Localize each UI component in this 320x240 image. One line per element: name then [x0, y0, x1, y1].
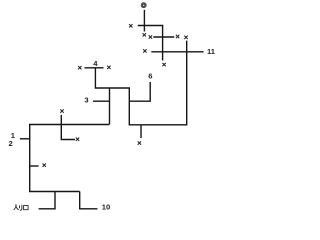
wire small vertical with right tick: [61, 115, 75, 140]
x mark 7 below upper-left dead end: [162, 63, 165, 66]
label entrance text: [14, 205, 28, 211]
wire node 4 horizontal: [85, 67, 104, 69]
svg-text:10: 10: [102, 202, 110, 211]
x mark 12 right of lower-left tick: [43, 164, 46, 167]
goal marker double circle: [141, 2, 147, 8]
wire tick lower left: [30, 165, 39, 167]
wire node 3 horizontal: [93, 100, 110, 102]
svg-text:4: 4: [93, 59, 98, 68]
svg-text:2: 2: [9, 139, 13, 148]
x mark 8 left of node 4 horizontal: [78, 66, 81, 69]
svg-text:3: 3: [84, 95, 88, 104]
wire node 6 branch: [129, 82, 150, 101]
wire from goal marker down through junction: [143, 10, 145, 32]
x mark 11 right of small tick: [76, 138, 79, 141]
wire entrance horizontal up-step: [39, 192, 55, 209]
x mark 10 above small vertical: [60, 109, 63, 112]
wire second horizontal: [153, 36, 174, 38]
x mark 13 below bottom stub: [138, 141, 141, 144]
svg-text:6: 6: [148, 71, 152, 80]
wire long horizontal down-left path to bottom: [30, 125, 110, 192]
x mark 9 right of node 4 horizontal: [107, 66, 110, 69]
wire top horizontal with corner down to dead end: [138, 26, 163, 61]
x mark 4 right of second horizontal: [176, 35, 179, 38]
wire tick at nodes 1 and 2: [20, 138, 30, 140]
wire right vertical with long path to node 4 branch: [95, 41, 186, 125]
x mark 2 below goal junction: [143, 33, 146, 36]
x mark 6 left of node 11 horizontal: [143, 49, 146, 52]
wire down-step to node 10: [80, 192, 98, 209]
wire mid-left vertical: [109, 88, 111, 124]
x mark 1 left of top horizontal: [129, 24, 132, 27]
wire horizontal to node 11: [151, 51, 203, 53]
x mark 5 above right vertical: [184, 36, 187, 39]
svg-text:11: 11: [207, 47, 216, 56]
x mark 3 at start of second horizontal: [149, 35, 152, 38]
wire stub below bottom-right horizontal: [140, 125, 142, 138]
